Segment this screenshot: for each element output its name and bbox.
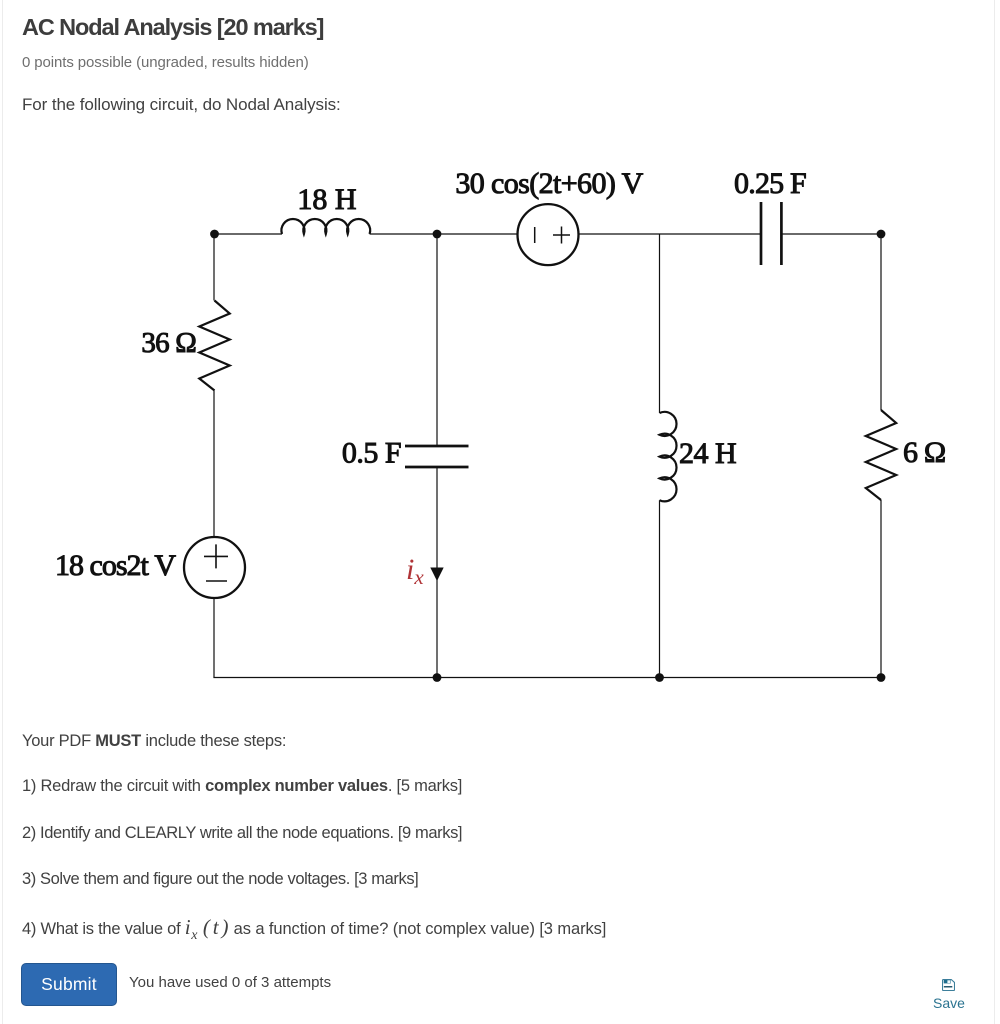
- branch E wire upper: [659, 234, 661, 413]
- wire source to capacitor C2: [579, 233, 762, 235]
- submit button: [21, 963, 117, 1006]
- current arrow ix head: [430, 568, 443, 582]
- VS1 minus sign: [206, 580, 227, 582]
- instructions: [22, 732, 286, 751]
- voltage source VS2 circle: [518, 204, 579, 265]
- voltage source VS1 circle: [184, 537, 245, 598]
- svg-text:ix: ix: [406, 553, 424, 589]
- circuit schematic: [0, 130, 1000, 700]
- svg-text:18 cos2t V: 18 cos2t V: [55, 549, 176, 582]
- capacitor C1 0.5 F plates: [405, 445, 469, 448]
- svg-text:36 Ω: 36 Ω: [141, 327, 196, 359]
- node dot E bottom-middle-right: [655, 673, 664, 682]
- subtitle: [22, 54, 309, 71]
- VS2 plus terminal: [553, 227, 570, 244]
- node dot A top-left: [210, 230, 219, 239]
- left branch wire lower: [213, 598, 215, 678]
- svg-text:24 H: 24 H: [679, 437, 736, 470]
- middle branch wire upper: [436, 234, 438, 446]
- svg-text:6 Ω: 6 Ω: [903, 436, 945, 469]
- node dot F bottom-right: [877, 673, 886, 682]
- inductor L2 24 H: [660, 412, 677, 501]
- middle branch wire lower: [436, 467, 438, 678]
- inductor L1 18 H: [281, 219, 370, 234]
- left branch wire upper: [213, 234, 215, 301]
- svg-text:18 H: 18 H: [297, 183, 356, 216]
- wire top-left horizontal (node A to inductor L1): [214, 233, 282, 235]
- save icon (floppy disk): [942, 979, 955, 991]
- capacitor C2 0.25 F plates: [760, 202, 763, 265]
- node dot B top-middle: [433, 230, 442, 239]
- title: [22, 14, 323, 41]
- right branch wire upper: [880, 234, 882, 410]
- branch E wire lower: [659, 500, 661, 677]
- svg-text:0.5 F: 0.5 F: [342, 437, 401, 470]
- svg-text:30 cos(2t+60) V: 30 cos(2t+60) V: [455, 167, 643, 200]
- right branch wire lower: [880, 500, 882, 678]
- bottom wire: [213, 677, 881, 679]
- svg-text:0.25 F: 0.25 F: [734, 167, 806, 200]
- resistor R1 36 Ohm: [199, 301, 229, 391]
- resistor R2 6 Ohm: [866, 410, 896, 500]
- wire capacitor to node C: [781, 233, 881, 235]
- VS2 minus terminal (vertical bar): [534, 227, 536, 243]
- intro: [22, 95, 341, 115]
- save link text: [933, 995, 965, 1011]
- wire inductor to node B: [370, 233, 518, 235]
- attempts text: [129, 974, 331, 991]
- VS1 plus sign: [204, 544, 228, 568]
- node dot D bottom-middle-left: [433, 673, 442, 682]
- left branch wire middle: [213, 391, 215, 538]
- node dot C top-right: [877, 230, 886, 239]
